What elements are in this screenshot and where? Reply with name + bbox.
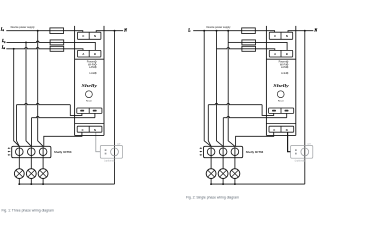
svg-text:1: 1 [3, 29, 4, 32]
svg-text:Fig. 1: Three phase wiring dia: Fig. 1: Three phase wiring diagram [2, 208, 55, 212]
svg-text:Shelly 3CT63: Shelly 3CT63 [54, 150, 72, 154]
svg-text:Shelly: Shelly [273, 83, 290, 88]
svg-text:Fig. 2: Single phase wiring di: Fig. 2: Single phase wiring diagram [186, 196, 239, 200]
svg-text:CT: CT [117, 143, 121, 146]
svg-text:Shelly 3CT63: Shelly 3CT63 [246, 150, 264, 154]
svg-text:N: N [314, 29, 318, 33]
svg-text:(optional): (optional) [295, 159, 306, 162]
svg-text:Shelly: Shelly [82, 83, 99, 88]
svg-text:N: N [123, 29, 127, 33]
svg-text:CT: CT [308, 143, 312, 146]
svg-text:(optional): (optional) [104, 159, 115, 162]
